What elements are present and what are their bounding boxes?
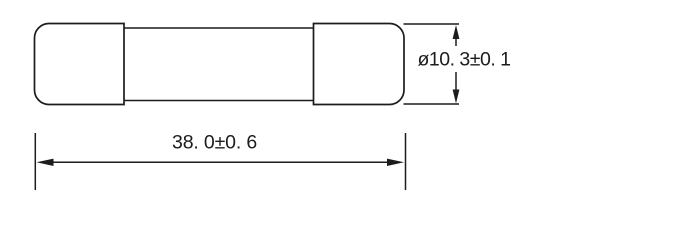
- fuse left end cap: [35, 24, 125, 105]
- diameter extension line top: [404, 23, 460, 25]
- diameter dimension line upper segment: [455, 30, 457, 46]
- diameter dimension line lower segment: [455, 72, 457, 98]
- diameter dimension arrow up: [453, 25, 460, 39]
- diameter dimension arrow down: [453, 90, 460, 104]
- length dimension arrow left: [37, 159, 54, 166]
- length extension line left: [34, 133, 36, 190]
- fuse right end cap: [314, 24, 405, 105]
- fuse body bottom line: [124, 100, 314, 102]
- fuse body top line: [124, 27, 314, 29]
- diameter extension line bottom: [404, 103, 460, 105]
- length dimension line: [48, 161, 392, 163]
- svg-text:ø10. 3±0. 1: ø10. 3±0. 1: [418, 49, 511, 71]
- svg-text:38. 0±0. 6: 38. 0±0. 6: [172, 132, 257, 154]
- length dimension arrow right: [387, 159, 404, 166]
- length extension line right: [405, 133, 407, 190]
